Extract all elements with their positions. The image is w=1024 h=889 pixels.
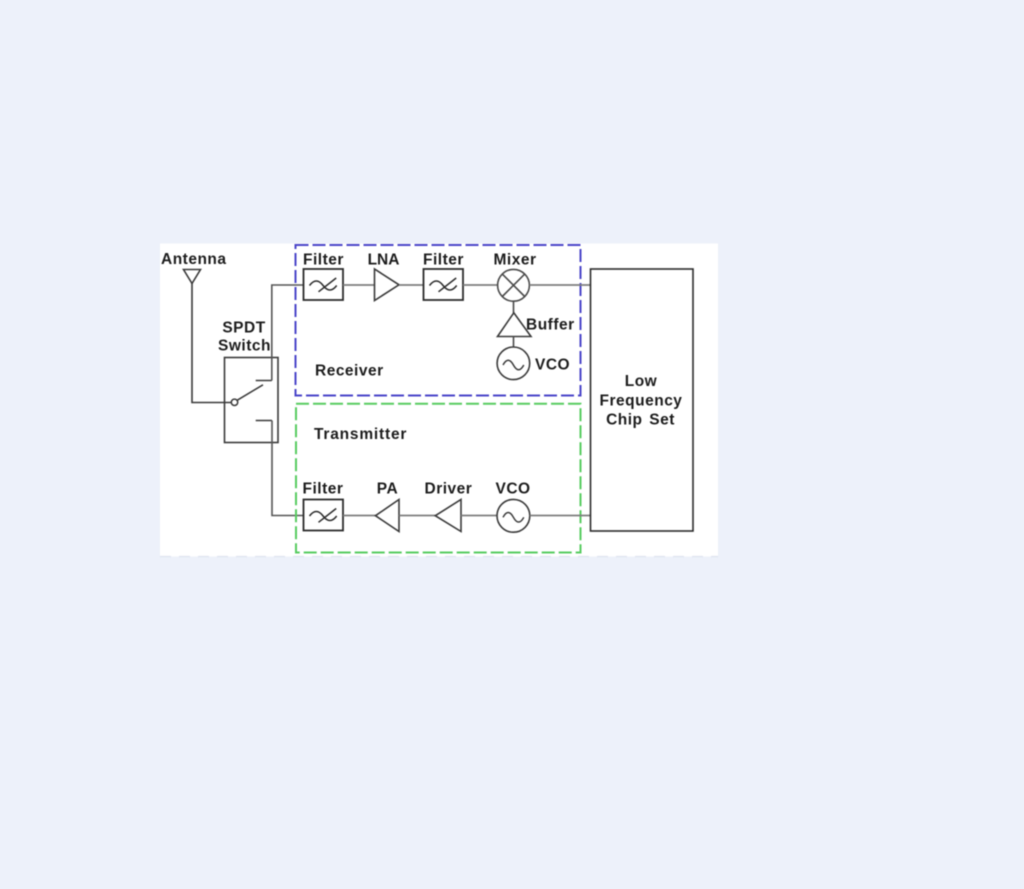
wire: second filter to mixer	[463, 284, 498, 286]
transmitter block boundary (green dashed)	[296, 404, 581, 553]
wire: LNA to second filter	[399, 284, 424, 286]
wire: TX VCO to chip set	[530, 515, 591, 517]
sheet bottom edge tick marks	[160, 556, 718, 558]
RX VCO oscillator	[497, 347, 530, 380]
wire: PA to TX filter	[343, 515, 376, 517]
mixer (circle with X)	[498, 269, 530, 301]
LNA amplifier	[375, 269, 400, 301]
svg-text:Receiver: Receiver	[315, 363, 384, 380]
wire: mixer LO port to buffer	[513, 301, 515, 313]
antenna symbol	[184, 270, 201, 284]
svg-text:Filter: Filter	[303, 481, 344, 498]
SPDT switch body	[225, 358, 279, 443]
switch TX throw contact stub	[256, 420, 272, 422]
buffer amplifier (points up)	[498, 313, 532, 337]
RX second band-pass filter box	[424, 269, 464, 300]
svg-text:Driver: Driver	[425, 481, 473, 498]
svg-text:VCO: VCO	[535, 357, 570, 374]
wire: mixer to chip set	[529, 284, 590, 286]
switch pole contact	[231, 399, 237, 405]
wire: driver to PA	[399, 515, 435, 517]
svg-text:PA: PA	[377, 481, 398, 498]
svg-text:Frequency: Frequency	[600, 392, 683, 409]
svg-text:Chip Set: Chip Set	[606, 412, 675, 429]
svg-text:SPDT: SPDT	[222, 320, 265, 337]
svg-text:VCO: VCO	[496, 481, 531, 498]
svg-text:Transmitter: Transmitter	[314, 426, 407, 443]
switch RX throw contact stub	[256, 380, 272, 382]
driver amplifier (points left)	[435, 500, 461, 532]
svg-text:Filter: Filter	[303, 252, 344, 269]
svg-text:Antenna: Antenna	[161, 251, 227, 268]
low frequency chip set block	[591, 269, 694, 531]
white drawing sheet	[160, 244, 718, 557]
svg-text:Buffer: Buffer	[526, 317, 575, 334]
switch lever	[237, 385, 263, 400]
receiver block boundary (blue dashed)	[296, 245, 581, 396]
PA amplifier (points left)	[376, 500, 400, 532]
TX VCO oscillator	[497, 499, 530, 532]
wire: RX throw up and right to RX filter	[272, 285, 304, 381]
svg-text:LNA: LNA	[368, 252, 400, 269]
wire: TX throw down and right to TX filter	[272, 421, 304, 516]
svg-text:Low: Low	[625, 373, 658, 390]
wire: buffer to RX VCO	[513, 337, 515, 348]
svg-text:Filter: Filter	[423, 252, 464, 269]
wire: RX filter to LNA	[343, 284, 375, 286]
wire: antenna to SPDT switch pole	[192, 284, 231, 403]
svg-text:Mixer: Mixer	[494, 252, 537, 269]
RX input band-pass filter box	[304, 269, 344, 300]
svg-text:Switch: Switch	[218, 338, 271, 355]
wire: TX VCO to driver	[461, 515, 497, 517]
TX band-pass filter box	[304, 500, 344, 531]
